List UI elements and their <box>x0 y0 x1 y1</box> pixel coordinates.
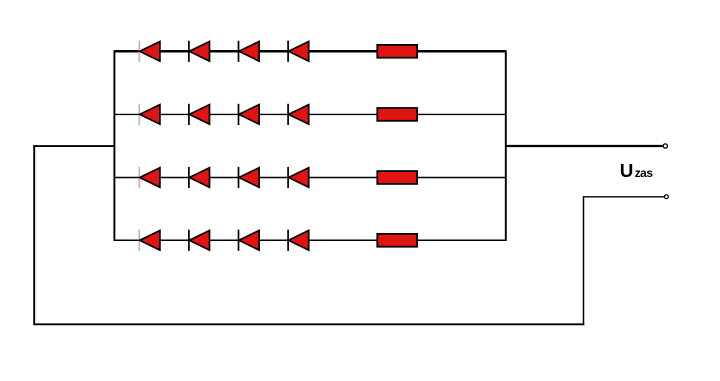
LED diode row2 #3 <box>239 104 260 125</box>
LED diode row4 #2 <box>189 230 210 251</box>
LED diode row3 #3 <box>239 167 260 188</box>
LED diode row3 #2 <box>189 167 210 188</box>
LED diode row1 #2 <box>189 41 210 62</box>
LED diode row1 #3 <box>239 41 260 62</box>
wire: outer left vertical return <box>33 145 35 324</box>
terminal: positive supply terminal <box>663 144 667 148</box>
svg-text:zas: zas <box>635 166 654 180</box>
LED diode row1 #1 <box>139 41 160 62</box>
wire: bottom return run <box>33 323 584 325</box>
LED diode row3 #1 <box>139 167 160 188</box>
wire: row 3 branch <box>114 177 505 179</box>
resistor row 3 <box>377 171 417 184</box>
resistor row 2 <box>377 108 417 121</box>
wire: row 4 branch (bottom LED string) <box>114 239 505 241</box>
LED diode row4 #3 <box>239 230 260 251</box>
wire: negative terminal lead <box>584 196 665 198</box>
LED diode row4 #4 <box>288 230 309 251</box>
wire: row 2 branch <box>114 113 505 115</box>
LED diode row2 #4 <box>288 104 309 125</box>
wire: row 1 branch (top LED string) <box>114 50 505 53</box>
resistor row 4 <box>377 234 417 247</box>
terminal: negative supply terminal <box>665 195 669 199</box>
wire: left supply connector <box>33 145 114 147</box>
LED diode row2 #1 <box>139 104 160 125</box>
wire: lower right vertical riser <box>583 196 585 325</box>
LED diode row1 #4 <box>288 41 309 62</box>
resistor row 1 <box>377 45 417 58</box>
wire: left anode bus <box>113 50 115 241</box>
LED diode row3 #4 <box>288 167 309 188</box>
svg-text:U: U <box>620 160 634 181</box>
wire: right cathode bus <box>505 50 507 241</box>
LED diode row2 #2 <box>189 104 210 125</box>
wire: positive terminal lead <box>506 145 663 147</box>
LED diode row4 #1 <box>139 230 160 251</box>
